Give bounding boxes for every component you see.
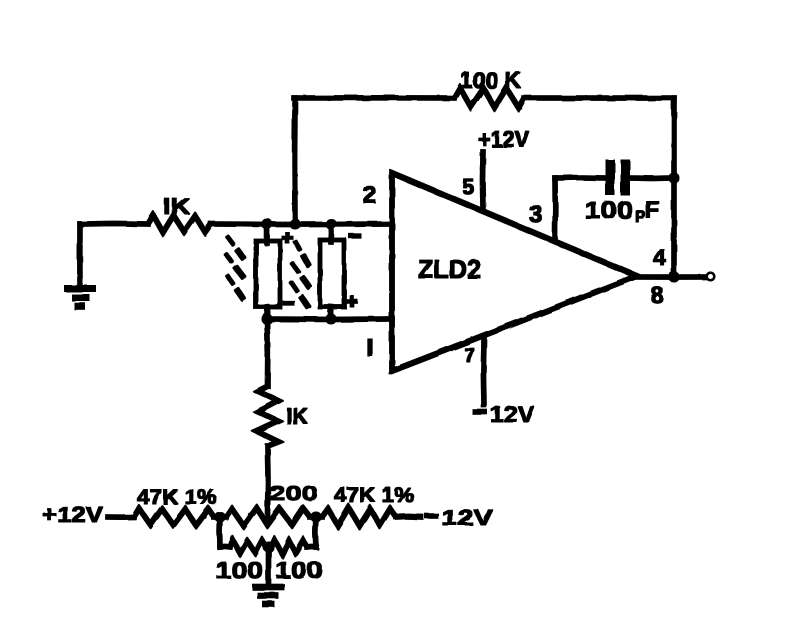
svg-text:47K 1%: 47K 1% — [334, 484, 414, 507]
node: summing junction (left cell top) — [262, 219, 272, 229]
svg-text:12V: 12V — [441, 505, 493, 530]
light arrows onto PC1 — [225, 236, 244, 300]
svg-text:7: 7 — [464, 345, 475, 367]
resistor R6 47K 1% — [322, 484, 414, 526]
svg-text:3: 3 — [529, 201, 542, 228]
resistor R3 1K (to wiper) — [257, 386, 309, 446]
node: R4 / pot junction — [215, 512, 225, 522]
wire: left leg down to R7 — [217, 517, 222, 547]
pin 1 label — [368, 339, 372, 356]
op-amp U1 ZLD2 — [392, 173, 637, 371]
node: pot / R6 junction — [311, 512, 321, 522]
output terminal (open circle) — [707, 273, 715, 281]
resistor R1 1K (input, left) — [148, 193, 211, 233]
ground GND1 (left input return) — [65, 224, 96, 307]
potentiometer R5 200 — [214, 483, 322, 526]
node: right cell bottom junction — [326, 314, 336, 324]
wire: right leg up to pot — [307, 544, 316, 549]
node: output junction — [669, 272, 679, 282]
resistor R2 100K (feedback) — [454, 67, 524, 108]
node: R7/R8 centre tap — [264, 542, 274, 552]
wire: ground to R1 — [80, 221, 148, 226]
wire: input bus down to R3 — [265, 319, 270, 386]
ground GND2 (bottom centre tap) — [253, 547, 285, 604]
node: capacitor / feedback junction — [669, 173, 679, 183]
svg-text:100: 100 — [275, 557, 323, 583]
svg-text:100 K: 100 K — [460, 67, 521, 93]
wire: feedback top run (left of R2) — [294, 96, 454, 101]
node: feedback tap on top bus — [290, 219, 300, 229]
svg-text:2: 2 — [363, 182, 376, 209]
wire: feedback top run (right of R2) — [524, 96, 674, 101]
supply -12V at pin 7 — [473, 339, 535, 427]
wire: +12V to R4 — [108, 515, 134, 520]
wire: R3 to potentiometer wiper — [265, 446, 270, 517]
wire: bottom bus to non-inverting input (pin 1) — [267, 317, 392, 322]
photocell PC2 (right, - top / + bottom) — [320, 224, 361, 319]
svg-text:5: 5 — [462, 174, 474, 199]
resistor R4 47K 1% — [134, 486, 217, 525]
capacitor C1 100pF — [555, 160, 674, 226]
svg-text:IK: IK — [163, 193, 190, 219]
wire: pin 3 riser to capacitor — [553, 178, 558, 240]
light arrows onto PC2 — [291, 241, 310, 308]
wire: feedback right vertical drop to output — [672, 98, 677, 277]
photocell PC1 (left, + top / - bottom) — [256, 224, 294, 319]
svg-text:F: F — [645, 197, 660, 224]
wire: R6 to -12V — [396, 514, 421, 519]
resistor R8 100 — [271, 540, 323, 583]
node: right cell top — [326, 219, 336, 229]
node: left cell bottom junction — [262, 314, 272, 324]
svg-text:ZLD2: ZLD2 — [418, 254, 481, 284]
wire: op-amp output to terminal — [637, 275, 705, 280]
svg-text:100: 100 — [215, 557, 263, 583]
resistor R7 100 — [215, 540, 266, 583]
svg-text:+12V: +12V — [478, 126, 530, 152]
wire: feedback left vertical riser — [292, 98, 297, 224]
-12V rail label (bottom right) — [425, 505, 493, 530]
svg-text:8: 8 — [651, 282, 664, 308]
svg-text:200: 200 — [269, 483, 318, 505]
svg-text:4: 4 — [653, 244, 666, 270]
svg-text:100: 100 — [584, 197, 633, 224]
supply +12V at pin 5 — [478, 126, 530, 210]
svg-text:12V: 12V — [490, 401, 535, 427]
wire: R1 to inverting input bus (pin 2) — [211, 222, 392, 227]
svg-text:+12V: +12V — [42, 502, 103, 527]
svg-text:IK: IK — [286, 403, 308, 429]
svg-text:47K 1%: 47K 1% — [137, 486, 217, 509]
